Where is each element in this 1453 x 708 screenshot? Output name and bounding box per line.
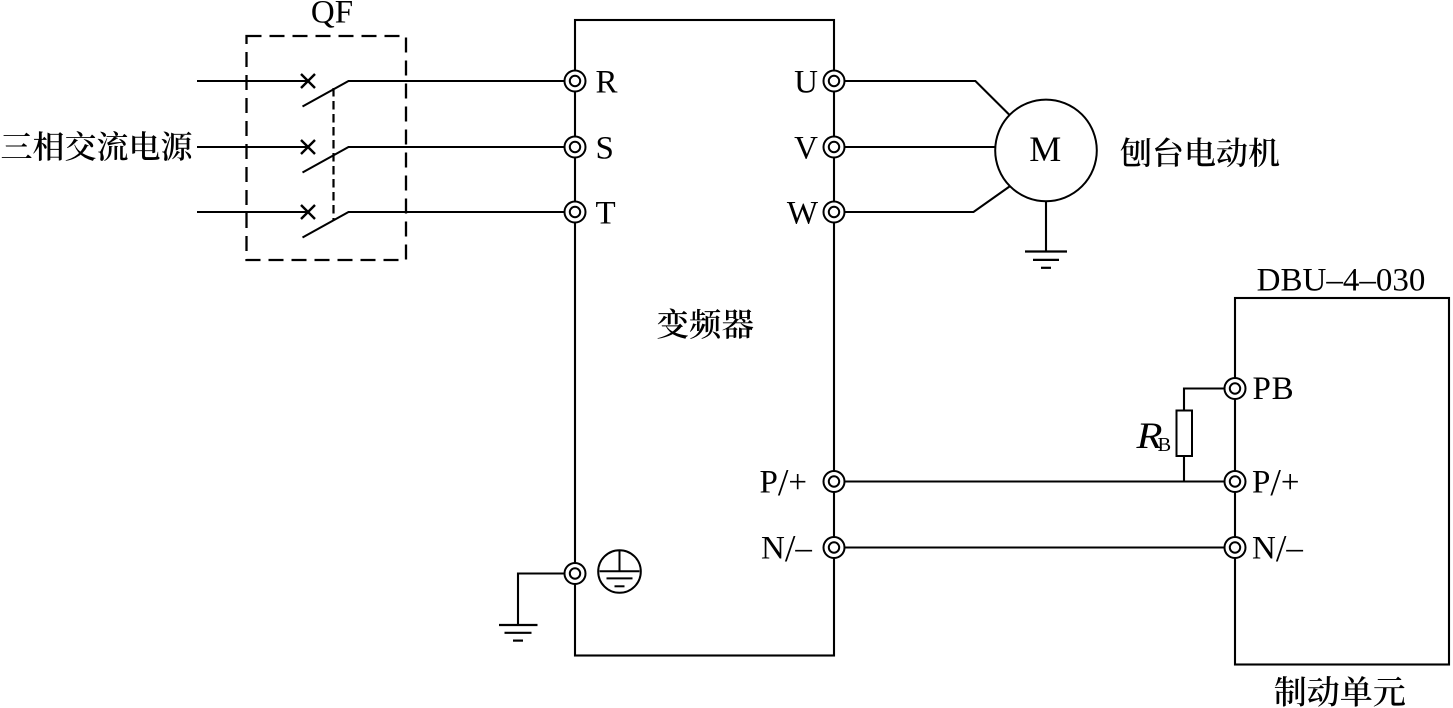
ground (earth) at inverter [499,625,538,641]
wire: motor to ground [1045,201,1047,251]
breaker QF pole 2 contact x [301,140,315,154]
terminal PE ground (inverter) [565,563,586,584]
svg-text:PB: PB [1253,371,1295,407]
svg-text:DBU–4–030: DBU–4–030 [1257,263,1426,299]
breaker QF pole 2 blade [303,147,349,173]
breaker QF pole 1 blade [303,81,349,107]
breaker QF pole 1 contact x [301,74,315,88]
svg-text:V: V [794,130,818,166]
label inverter 变频器 [658,308,754,339]
label braking unit 制动单元 [1275,676,1405,707]
wire: inverter ground terminal to earth [518,574,565,626]
braking unit box [1235,298,1449,665]
resistor RB body [1177,411,1193,457]
svg-text:U: U [794,64,818,100]
terminal N/− (braking unit) [1225,537,1246,558]
svg-text:B: B [1158,434,1172,456]
svg-text:N/–: N/– [1252,528,1303,570]
label three-phase AC source 三相交流电源 [2,131,192,161]
breaker QF pole 3 blade [303,212,349,238]
wire: P/+ bus [845,480,1224,482]
svg-text:T: T [596,195,616,231]
svg-text:W: W [787,195,819,231]
wire: phase 1 to inverter terminal [348,80,564,82]
breaker QF dashed box [247,36,407,260]
svg-text:P/+: P/+ [1252,462,1300,504]
terminal W (inverter output) [824,202,845,223]
protective earth symbol (circle) [598,550,641,593]
motor M circle [995,100,1097,202]
wire: phase 3 to inverter terminal [348,211,564,213]
ground (earth) at motor [1025,252,1067,268]
svg-text:S: S [596,130,614,166]
wire: N/− bus [845,546,1224,548]
terminal S (inverter input) [565,137,586,158]
terminal P/+ (braking unit) [1225,471,1246,492]
breaker QF pole 3 contact x [301,205,315,219]
terminal T (inverter input) [565,202,586,223]
wire: phase 1 input [197,80,308,82]
wire: W to motor [845,187,1010,213]
terminal R (inverter input) [565,71,586,92]
wire: phase 3 input [197,211,308,213]
svg-text:N/–: N/– [761,528,812,570]
wire: PB to resistor RB [1184,389,1224,411]
terminal P/+ (inverter) [824,471,845,492]
breaker QF linkage dashed line [332,88,334,221]
terminal U (inverter output) [824,71,845,92]
terminal V (inverter output) [824,137,845,158]
label planer motor 刨台电动机 [1121,137,1280,167]
svg-text:M: M [1029,129,1061,169]
svg-text:P/+: P/+ [760,462,808,504]
wire: V to motor [845,146,996,148]
terminal N/− (inverter) [824,537,845,558]
wire: resistor RB to P/+ bus [1183,456,1185,482]
svg-text:QF: QF [311,0,353,31]
terminal PB (braking unit) [1225,378,1246,399]
svg-text:R: R [596,64,618,100]
wire: U to motor [845,81,1010,115]
inverter box 变频器 [575,20,834,656]
wire: phase 2 input [197,146,308,148]
wire: phase 2 to inverter terminal [348,146,564,148]
